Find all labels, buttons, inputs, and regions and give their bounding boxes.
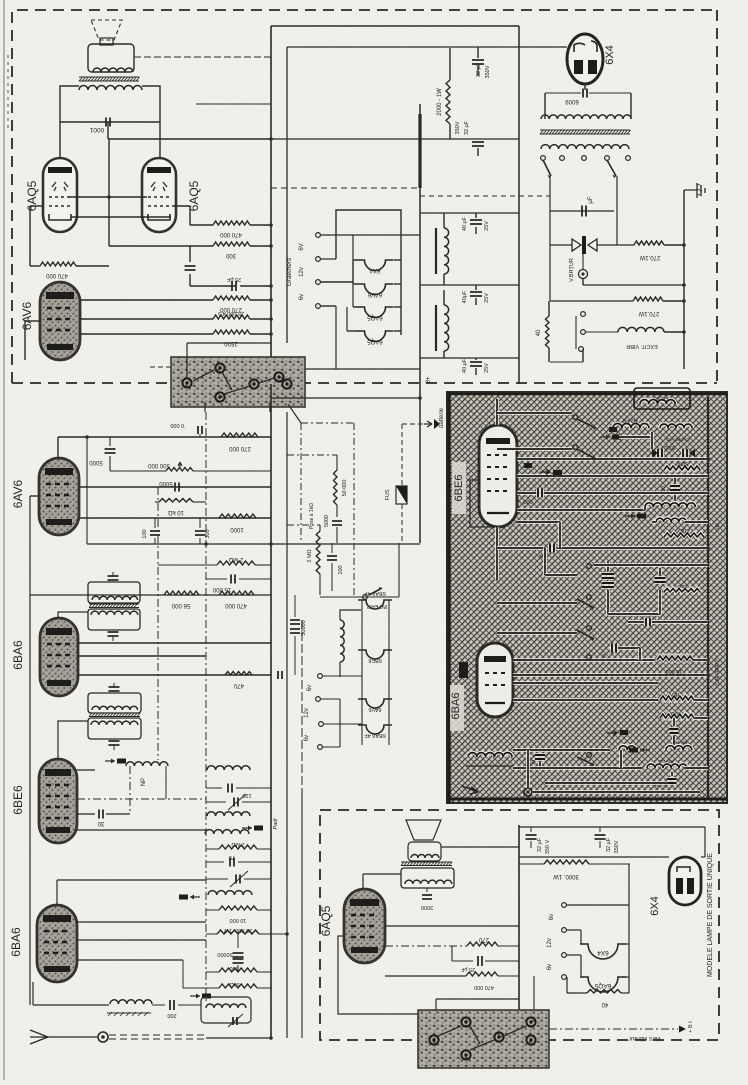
wire V5 y643 <box>78 642 271 644</box>
wire y398 <box>271 397 420 399</box>
transformer terminals <box>541 156 546 161</box>
resistor 270-1W a <box>634 241 664 245</box>
trimmer cap a <box>206 801 226 803</box>
IF1 core <box>89 604 139 608</box>
IF transformer 2 top cap <box>109 687 120 691</box>
cap 25uF bars <box>232 281 236 291</box>
V10 wires right <box>385 925 519 927</box>
junction dots RF bus <box>706 457 710 461</box>
bottom ladder contacts <box>562 903 567 908</box>
resistor 3000 1W <box>544 860 589 864</box>
output tube V2 6AQ5 <box>142 158 176 232</box>
dash rail y188 <box>271 187 420 189</box>
resistor 470 <box>225 672 252 676</box>
wire bottom supply <box>550 361 583 363</box>
ground symbol <box>697 183 705 198</box>
right supply bus <box>683 190 685 369</box>
RF wire y603 <box>497 601 577 605</box>
wire V3 left stub <box>25 320 40 322</box>
RF wire right stub y476 <box>663 474 708 478</box>
wire y799 dash <box>77 798 206 800</box>
RF extra row a <box>517 520 560 524</box>
vibrator transformer core <box>540 130 631 134</box>
RF coil right a <box>660 424 692 428</box>
LS2 box output wire <box>441 846 519 848</box>
wire vibrator can down <box>582 254 584 269</box>
antenna coil hatch <box>107 1012 151 1014</box>
IF2 coil 1 <box>92 706 138 710</box>
wire V1 grid to V2 grid <box>69 196 147 198</box>
RF bottom wire <box>532 790 700 794</box>
shield dash-dot x158 <box>157 487 159 760</box>
terminal strip B hatched <box>418 1010 549 1068</box>
wire cap tap to bus <box>107 122 109 139</box>
RF coil e <box>666 746 692 750</box>
antenna input coil <box>33 1004 109 1006</box>
vibrator contact symbol <box>550 244 572 246</box>
pot prise 1k vertical <box>319 525 321 531</box>
bump 6AV6 m <box>358 699 392 708</box>
vibrator transformer primary <box>541 115 631 119</box>
IF transformer 1 top cap <box>108 576 119 580</box>
strip A links <box>193 370 214 381</box>
V9 wires <box>56 880 58 905</box>
antenna lead <box>48 1036 97 1038</box>
mixer tube V8 6BE6 shaded <box>39 759 77 843</box>
bottom ladder wires <box>567 904 629 906</box>
IF2 wires <box>113 683 115 687</box>
rectifier tube 6X4 <box>567 34 603 84</box>
wire V8 y770 <box>77 769 95 771</box>
resistor 470000 right <box>190 224 213 226</box>
RF wire y783 <box>545 781 668 785</box>
resistor 2M b <box>206 848 219 850</box>
strip B links <box>438 1026 461 1036</box>
RF cap d <box>672 718 676 726</box>
speaker LS1 cone <box>91 20 122 40</box>
RF contact dots col <box>587 564 592 569</box>
bus vertical x287 <box>286 47 288 343</box>
RF switch blade c <box>587 595 592 600</box>
V10 left wire <box>338 936 418 1014</box>
RF cap S <box>612 644 616 653</box>
bottom wire y1038 <box>206 1037 271 1039</box>
T1 secondary coil <box>79 86 142 91</box>
RF resistor b <box>664 533 704 537</box>
shield dash-dot x206 <box>205 412 207 1003</box>
cap 200 ant <box>152 1004 165 1006</box>
switch blade b <box>607 160 616 176</box>
resistor 2500 <box>213 330 250 334</box>
cap 120 <box>206 787 222 789</box>
IF1 box bottom <box>88 609 140 630</box>
V6 row wires <box>517 457 640 461</box>
RF wire blade b feed <box>497 447 572 451</box>
switch blade a <box>543 160 551 176</box>
detector tube V4 6AV6 shaded <box>39 458 79 535</box>
rail y213 <box>420 212 519 214</box>
RF resistor c <box>660 714 694 718</box>
RF block hatched background <box>447 392 727 803</box>
bottom bump 6AQ5 <box>580 977 626 992</box>
trimmer cap b <box>206 878 228 880</box>
RF right stub y768 <box>685 766 708 770</box>
resistor 300 cathode <box>109 245 213 247</box>
filament ladder frame <box>336 210 401 335</box>
ant boxed coil <box>201 997 251 1023</box>
RF circled terminal <box>524 788 532 796</box>
wire y543 <box>87 542 420 544</box>
rail y139 <box>271 138 519 140</box>
RF switch blade e <box>587 753 592 758</box>
RF caps diodes cluster <box>658 449 662 457</box>
resistor 2M y565 <box>158 564 217 566</box>
cap 5000 b <box>175 483 179 492</box>
V10 grid wire y946 <box>385 945 467 947</box>
cap 32uF 350V b <box>472 142 484 146</box>
RF slug g <box>620 730 628 735</box>
T1 core <box>79 77 140 81</box>
RF vert x672 bottom <box>671 745 673 772</box>
cap 2000 <box>426 888 428 892</box>
heater bump 6AQ5 b <box>357 331 394 342</box>
interr contact <box>363 595 368 600</box>
bottom resistor 40 <box>587 990 621 994</box>
IF1 bottom cap <box>108 632 119 636</box>
wire x629 up <box>628 864 630 905</box>
ground stub <box>684 189 697 191</box>
RF resistor a <box>664 466 700 470</box>
bump 6BA6 m <box>358 725 392 734</box>
fuse dashed feed <box>401 424 403 486</box>
wire V8 y830 <box>77 829 206 831</box>
RF resistor 10000 <box>657 656 693 660</box>
wire blade a down <box>549 176 551 211</box>
ladder wires middle <box>323 675 362 677</box>
RF switch blade d <box>587 626 592 631</box>
slug plate V7 <box>459 662 468 678</box>
NP coil slug <box>105 760 115 762</box>
wire 6X4 cathode down <box>584 84 586 90</box>
RF right stub y700 <box>694 698 708 702</box>
wire V3 grid row <box>80 318 213 320</box>
caps 30000 column <box>294 595 296 617</box>
IF1 box top <box>88 582 140 603</box>
NP coil <box>126 762 168 766</box>
wire cap left leg <box>545 92 581 94</box>
RF block bottom heavy edge <box>447 798 727 801</box>
cap R mid <box>550 544 554 553</box>
RF wire x529 to circled <box>526 750 530 788</box>
wire y999 bottom <box>436 998 519 1000</box>
RF slug c <box>640 749 650 751</box>
V7 bottom coil <box>468 753 512 757</box>
RF wire y614 trimmer <box>606 598 610 614</box>
RF block left heavy edge <box>447 392 450 803</box>
antenna jack <box>98 1032 108 1042</box>
cap 020 near V6 <box>538 489 542 498</box>
vers vibreur arrow <box>549 1028 678 1030</box>
resistor 50000 vertical <box>287 454 337 456</box>
bottom block dashed border <box>320 810 719 1040</box>
osc coil right <box>340 620 344 662</box>
ant box trimmer <box>233 1017 237 1025</box>
IF amp tube V5 6BA6 shaded <box>40 618 78 696</box>
terminal strip A hatched <box>171 357 305 407</box>
cap 200 RF <box>538 748 542 752</box>
RF arrow f <box>540 470 550 475</box>
resistor 25000 <box>213 315 250 319</box>
wire contact4 <box>321 305 336 307</box>
RF vertical x545 <box>543 548 547 575</box>
RF wire y565 cross <box>594 563 708 567</box>
RF bottom arrow <box>462 786 478 794</box>
long wire y544 <box>87 543 420 545</box>
cap 15000 <box>206 578 227 580</box>
RF cap 100 <box>673 476 677 483</box>
label 6BE6 V6 <box>452 462 466 514</box>
dash sub-box <box>301 422 354 424</box>
RF trimmer right pair <box>655 578 666 582</box>
wire rail to 6X4 <box>519 46 567 48</box>
filter choke coil a <box>444 228 449 274</box>
wire V4 plate top <box>57 437 59 458</box>
RF wire y648 link <box>619 646 640 650</box>
cap 5000 vertical <box>332 521 342 525</box>
RF wire top to blade a <box>497 411 572 415</box>
bottom cap 32uF a <box>530 827 532 832</box>
wire x534 into strip <box>533 976 535 1015</box>
tuning coil bank 1 <box>207 766 250 770</box>
RF small slug f <box>553 470 562 475</box>
RF coil 00 <box>619 746 636 750</box>
resistor 40 vertical <box>548 301 550 316</box>
RF coil f <box>647 764 687 768</box>
RF boxed coil TC80 <box>634 388 690 409</box>
RF resistor 150 <box>660 696 694 700</box>
strip A wire bottom exits <box>204 402 206 412</box>
bypass cap 25uF <box>189 246 191 262</box>
wire cap to transformer right <box>589 92 631 94</box>
bottom bump 6X4 <box>580 944 626 959</box>
grid resistor 470000 left <box>30 265 40 267</box>
junction dots on bus <box>269 137 273 141</box>
page left edge line <box>3 0 5 1080</box>
B+ rail vertical x420 <box>419 104 421 543</box>
wire y285 to right bus <box>583 284 684 286</box>
resistor 20000 1W <box>206 933 217 935</box>
cap 32uF 350V a <box>477 47 479 58</box>
heater ladder middle <box>361 600 363 745</box>
converter tube V6 6BE6 <box>479 425 517 527</box>
ladder bottom wire <box>190 368 420 370</box>
RF wire y437 link <box>619 435 652 439</box>
wire V3 cathode row <box>80 333 213 335</box>
wire contact1 right <box>321 234 420 236</box>
preamp tube V3 6AV6 shaded <box>40 282 80 360</box>
coil excit vibr <box>586 331 618 333</box>
filter resistor 2000-1W <box>449 48 451 80</box>
bottom rail y857 <box>519 856 669 858</box>
LS2 transformer core <box>401 862 452 866</box>
IF2 box top <box>88 693 141 713</box>
slug c <box>190 896 200 898</box>
wire V4 grid y487 <box>79 486 271 488</box>
resistor 270-1W b <box>633 297 663 301</box>
interr switch wire <box>320 596 399 598</box>
RF right connect wires <box>640 457 708 461</box>
main bus vertical x271 <box>270 26 272 384</box>
wire y104 to bus <box>196 103 271 105</box>
RF right stub y718 <box>694 716 708 720</box>
volume pot 500000 <box>110 470 166 472</box>
cap 300 <box>199 518 201 528</box>
rail y47 <box>287 46 519 48</box>
wire T1 box to B+ bus <box>134 56 271 58</box>
RF slug a <box>600 436 610 438</box>
rail y285 <box>420 284 519 286</box>
RF extra row b <box>621 658 652 662</box>
V6 left wire <box>470 480 497 527</box>
divider line x519 <box>518 26 520 384</box>
resistor 270000 plate <box>221 433 258 437</box>
RF switch blade b <box>573 445 578 450</box>
strip B wire top <box>518 1010 520 1015</box>
junction dots supply <box>682 243 686 247</box>
V6 top wire <box>495 399 499 425</box>
strip A terminals <box>182 378 191 387</box>
antenna dash lead <box>109 1034 206 1036</box>
main bus x271 middle <box>270 384 272 1038</box>
wire contact3 <box>321 281 353 283</box>
RF wire y768 <box>513 766 642 770</box>
RF wire y522 link <box>652 520 656 524</box>
wire LS2 to tube <box>362 874 364 889</box>
wire V4 cathode y518 <box>79 517 271 519</box>
contacts middle ladder <box>318 674 323 679</box>
cap 40uF 25V c <box>470 362 482 366</box>
capacitor 0001 across primary <box>106 118 110 127</box>
resistor 270 bottom <box>467 942 498 946</box>
rail top y26 <box>271 25 519 27</box>
cap 5000 a <box>109 437 111 446</box>
wire V1 cathode to V2 cathode <box>71 216 171 218</box>
resistor 270000 <box>213 296 250 300</box>
wire V3 plate row <box>80 299 213 301</box>
LS2 transformer coil <box>405 880 452 884</box>
RF wire y750 cross <box>513 748 610 752</box>
heater bump 6X4 <box>357 260 394 271</box>
bus x287 lower <box>286 412 288 1038</box>
resistor 470000 c <box>219 591 254 595</box>
cap 100 <box>154 518 156 528</box>
wire contact2 <box>321 258 336 260</box>
slug b <box>242 827 252 829</box>
IF1 wires <box>112 572 114 576</box>
cap to ground y430 <box>198 426 202 434</box>
speaker LS2 cone <box>406 820 441 840</box>
cap 50000 <box>237 934 239 948</box>
bottom junctions <box>269 1036 273 1040</box>
cap 25uF bottom <box>451 946 453 961</box>
vibrator transformer secondary <box>541 145 629 149</box>
wire 25uF to bus <box>240 285 271 287</box>
strip B terminals <box>429 1035 438 1044</box>
RF wire y548 <box>497 546 543 550</box>
bottom cap 32uF b <box>599 827 601 832</box>
IF2 bottom cap <box>109 741 120 745</box>
heater bump 6AV6 <box>357 284 394 295</box>
B+ rail thick shield <box>418 114 421 188</box>
resistor 330 <box>206 971 219 973</box>
cap 100 b <box>331 543 333 553</box>
T1 primary coil <box>93 68 133 72</box>
IF2 box bottom <box>88 718 141 739</box>
tuning coil bank 2 <box>207 812 250 816</box>
battery arrow <box>402 423 424 425</box>
output tube V1 6AQ5 <box>43 158 77 232</box>
wire y595 long <box>30 594 271 596</box>
RF vert x621 bottom <box>619 750 623 768</box>
LS2 transformer box <box>401 868 454 888</box>
vibrator switch contacts <box>581 312 586 317</box>
RF trimmer caps pair <box>602 574 614 578</box>
wire V5 y656 <box>78 655 206 657</box>
wire blade b down <box>616 176 618 245</box>
dash rail into supply <box>420 195 550 197</box>
IF2 core <box>89 713 140 717</box>
RF extra slug h <box>524 463 532 468</box>
antenna symbol <box>30 1030 48 1044</box>
output tube V10 6AQ5 shaded <box>344 889 385 963</box>
RF wire right stub y510 <box>621 508 645 512</box>
RF coil c <box>656 518 686 522</box>
left supply vertical <box>549 211 551 301</box>
IF2 coil 2 <box>91 721 138 725</box>
resistor 56000 <box>164 591 199 595</box>
bottom rail y827 <box>519 826 705 828</box>
RF wire y633 <box>497 631 577 635</box>
rectifier tube V11 6X4 <box>669 857 701 905</box>
RF slug b <box>625 515 635 517</box>
strip A wires top <box>186 343 188 378</box>
left rail x30 <box>29 496 31 1005</box>
IF1 coil 2 <box>91 611 138 615</box>
RF mid wires <box>497 602 575 604</box>
RF small slug e <box>609 427 617 432</box>
buffer cap bars <box>582 206 586 217</box>
RF switch blade a <box>573 415 578 420</box>
wire bump1 sides <box>353 259 357 261</box>
bottom main vertical x519 <box>518 825 520 1015</box>
tuning coil bank 4 <box>208 891 252 895</box>
buffer cap 1uF wire <box>550 210 614 212</box>
RF right bus x708 <box>707 397 709 800</box>
bus x302 lower <box>301 620 303 790</box>
fuse FUS <box>396 486 407 504</box>
cap 30 <box>77 813 95 815</box>
V10 cathode wire y976 <box>385 975 466 977</box>
strip A wire left dash <box>150 366 171 368</box>
RF cap y622 <box>646 618 650 626</box>
cap 6X4 0009 <box>583 89 587 98</box>
V7 row wires <box>513 658 655 662</box>
strip A diagonal exit <box>288 404 301 423</box>
wire V5 y675 <box>78 674 271 676</box>
cap 40uF 25V a <box>470 220 482 224</box>
filter choke coil b <box>444 305 449 351</box>
resistor 470000 bottom <box>466 972 498 976</box>
